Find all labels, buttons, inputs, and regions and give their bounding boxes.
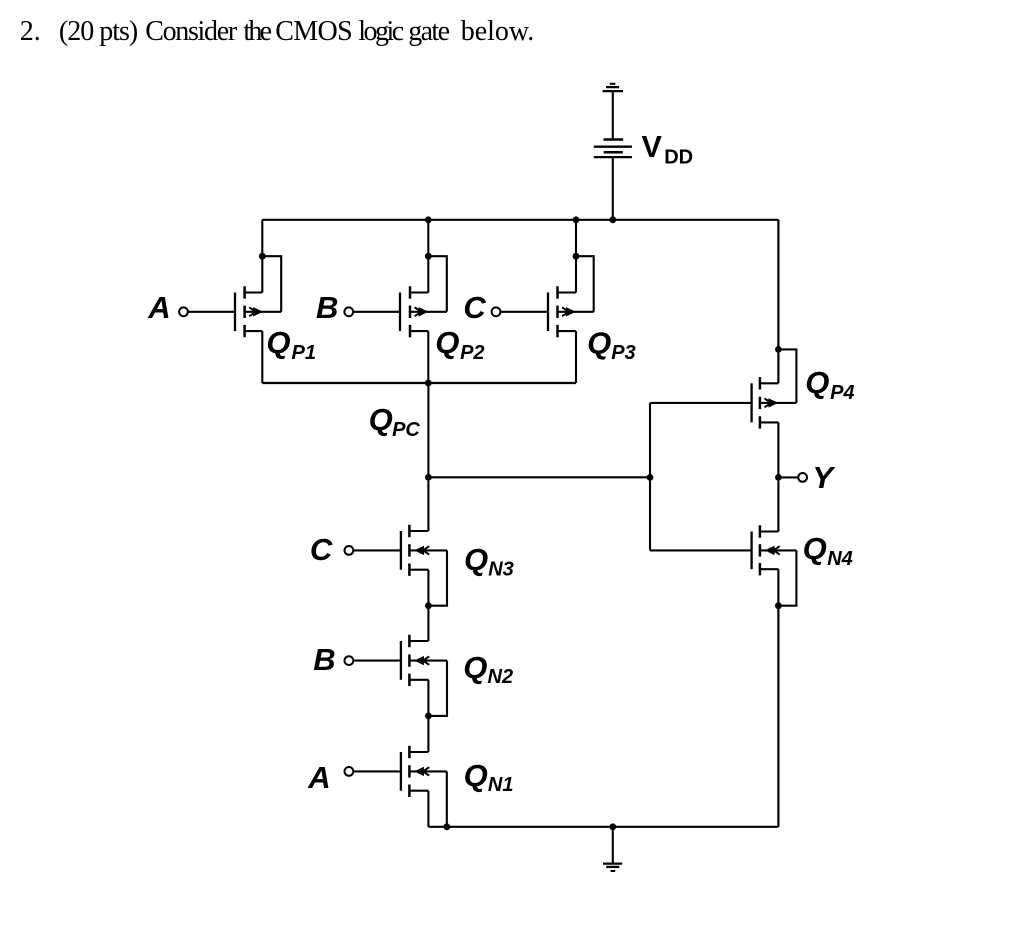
transistor QN3	[401, 525, 447, 576]
svg-text:B: B	[316, 290, 338, 325]
svg-text:N4: N4	[827, 548, 853, 570]
node QPC junction	[425, 474, 432, 481]
node C (input terminal of QP3)	[463, 290, 500, 325]
battery VDD	[594, 140, 632, 158]
wire body loop of QN4	[778, 550, 796, 605]
wire VDD rail (top horizontal)	[262, 219, 778, 221]
wire gate of QP4 to common gate node	[650, 402, 752, 404]
junction source/body of QN3	[425, 602, 432, 609]
wire input A to gate of QN1	[353, 770, 401, 772]
wire input B to gate of QP2	[353, 311, 400, 313]
transistor QP3	[548, 286, 594, 337]
svg-text:C: C	[310, 532, 333, 567]
wire common gate vertical (QP4/QN4)	[649, 403, 651, 551]
svg-text:N2: N2	[488, 666, 514, 688]
wire input C to gate of QN3	[353, 549, 401, 551]
wire source of QN4 down	[777, 569, 779, 606]
wire VDD rail right drop to QP4	[777, 220, 779, 383]
svg-text:B: B	[313, 642, 335, 677]
label QP1	[266, 325, 316, 364]
label QP3	[587, 325, 636, 364]
svg-text:V: V	[642, 130, 663, 164]
wire PMOS common drain bus	[262, 382, 576, 384]
svg-text:P2: P2	[460, 342, 484, 364]
junction QPC wire at gate vertical	[647, 474, 654, 481]
title text "(20 pts) Consider the CMOS logic gate below."	[59, 16, 534, 47]
transistor QP4	[752, 377, 797, 429]
ground symbol (top, above VDD battery)	[603, 84, 624, 91]
junction ground symbol at rail	[609, 823, 616, 830]
svg-text:the: the	[243, 16, 271, 47]
wire body loop of QP4	[778, 349, 796, 403]
svg-text:Consider: Consider	[145, 16, 238, 47]
junction battery at VDD rail	[609, 216, 616, 223]
wire drain of QP4 down to output node	[777, 422, 779, 477]
wire gate of QN4 to common gate node	[650, 549, 752, 551]
label QN1	[464, 758, 514, 796]
junction source/body of QN4	[775, 602, 782, 609]
label QN4	[803, 531, 853, 570]
wire source of QN3 down to next transistor	[427, 570, 429, 641]
svg-text:Y: Y	[812, 460, 836, 495]
svg-text:logic: logic	[358, 16, 404, 47]
node Y (output terminal)	[798, 460, 836, 495]
wire source of QN1 to ground rail	[427, 791, 429, 827]
svg-text:Q: Q	[435, 325, 459, 360]
junction QN1 body at ground rail	[443, 823, 450, 830]
transistor QN2	[401, 635, 447, 686]
svg-text:Q: Q	[464, 758, 488, 793]
junction source/body of QP2	[425, 253, 432, 260]
wire input C to gate of QP3	[500, 311, 548, 313]
svg-text:C: C	[463, 290, 486, 325]
wire output stub to terminal Y	[778, 476, 797, 478]
label QN3	[464, 542, 514, 580]
label VDD	[642, 130, 694, 169]
transistor QP2	[400, 286, 447, 337]
wire rail to ground symbol	[612, 827, 614, 864]
wire ground rail (bottom horizontal)	[428, 826, 778, 828]
junction source/body of QP3	[573, 253, 580, 260]
wire drain of QP3 down to common bus	[575, 331, 577, 383]
svg-text:P4: P4	[830, 382, 854, 404]
node A (input terminal of QN1)	[307, 760, 353, 795]
junction QP2 drain at bus	[425, 380, 432, 387]
wire top-ground to battery	[612, 91, 614, 138]
svg-text:2.: 2.	[20, 16, 41, 47]
ground symbol (bottom)	[603, 864, 622, 871]
junction source/body of QP1	[259, 253, 266, 260]
wire body loop of QP3	[576, 256, 594, 312]
wire ground rail right rise to QN4	[777, 606, 779, 827]
svg-text:Q: Q	[266, 325, 290, 360]
wire bus down to QN3 drain (node QPC)	[427, 383, 429, 531]
node B (input terminal of QP2)	[316, 290, 353, 325]
svg-text:CMOS: CMOS	[275, 16, 352, 47]
wire body loop of QN2	[428, 661, 447, 716]
svg-text:below.: below.	[461, 16, 535, 47]
label QP4	[805, 365, 854, 404]
node C (input terminal of QN3)	[310, 532, 353, 567]
wire body loop of QN1 to ground rail	[446, 771, 448, 826]
transistor QN1	[401, 746, 447, 797]
svg-text:A: A	[147, 290, 170, 325]
wire body loop of QP1	[262, 256, 281, 312]
junction QP3 source at VDD rail	[573, 216, 580, 223]
svg-text:(20 pts): (20 pts)	[59, 16, 138, 47]
wire source of QP1 to VDD rail	[261, 220, 263, 293]
wire input A to gate of QP1	[188, 311, 235, 313]
transistor QN4	[752, 525, 797, 575]
svg-text:Q: Q	[587, 325, 611, 360]
svg-text:A: A	[307, 760, 330, 795]
wire body loop of QP2	[428, 256, 447, 312]
svg-text:gate: gate	[408, 16, 449, 47]
wire drain of QP2 down to common bus	[427, 331, 429, 383]
wire body loop of QN3	[428, 550, 447, 605]
wire source of QN2 down to next transistor	[427, 680, 429, 752]
label QPC	[369, 402, 421, 441]
svg-text:Q: Q	[464, 542, 488, 577]
wire source of QP2 to VDD rail	[427, 220, 429, 293]
label QN2	[463, 650, 513, 688]
wire node QPC to inverter gates	[428, 476, 650, 478]
junction QP2 source at VDD rail	[425, 216, 432, 223]
wire source of QP3 to VDD rail	[575, 220, 577, 293]
node B (input terminal of QN2)	[313, 642, 353, 677]
label QP2	[435, 325, 484, 364]
svg-text:PC: PC	[392, 419, 420, 441]
svg-text:N3: N3	[488, 559, 514, 581]
node A (input terminal of QP1)	[147, 290, 188, 325]
svg-text:DD: DD	[664, 146, 693, 168]
wire drain of QP1 down to common bus	[261, 331, 263, 383]
svg-text:Q: Q	[805, 365, 829, 400]
transistor QP1	[235, 286, 281, 337]
junction source/body of QP4	[775, 346, 782, 353]
svg-text:N1: N1	[488, 774, 514, 796]
wire drain of QN4 up to output node	[777, 477, 779, 531]
node Y junction	[775, 474, 782, 481]
wire input B to gate of QN2	[353, 660, 401, 662]
svg-text:P3: P3	[611, 342, 635, 364]
wire battery to VDD rail	[612, 157, 614, 220]
svg-text:P1: P1	[292, 342, 316, 364]
svg-text:Q: Q	[463, 650, 487, 685]
junction source/body of QN2	[425, 713, 432, 720]
svg-text:Q: Q	[369, 402, 393, 437]
svg-text:Q: Q	[803, 531, 827, 566]
